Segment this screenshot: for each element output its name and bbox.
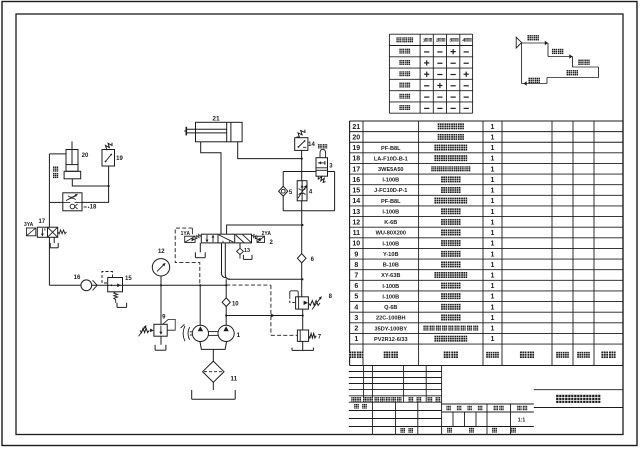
svg-text:1:1: 1:1 <box>518 418 526 424</box>
svg-text:PF-B8L: PF-B8L <box>381 199 401 205</box>
svg-text:19: 19 <box>116 156 123 162</box>
svg-text:1: 1 <box>491 188 495 195</box>
svg-text:13: 13 <box>352 209 360 216</box>
svg-text:11: 11 <box>230 375 237 382</box>
svg-text:11: 11 <box>353 230 361 237</box>
svg-text:1: 1 <box>491 198 495 205</box>
svg-text:1: 1 <box>491 209 495 216</box>
svg-text:3WE5A50: 3WE5A50 <box>378 167 404 173</box>
svg-text:14: 14 <box>308 142 315 148</box>
svg-text:15: 15 <box>352 188 360 195</box>
svg-text:1: 1 <box>491 166 495 173</box>
svg-text:1: 1 <box>491 336 495 343</box>
svg-text:1: 1 <box>491 315 495 322</box>
svg-text:WU-80X200: WU-80X200 <box>376 231 406 237</box>
svg-text:15: 15 <box>125 276 132 282</box>
svg-text:8: 8 <box>354 262 358 269</box>
svg-text:16: 16 <box>352 177 360 184</box>
svg-text:LA-F10D-B-1: LA-F10D-B-1 <box>374 156 408 162</box>
svg-text:19: 19 <box>352 145 360 152</box>
svg-text:1: 1 <box>491 283 495 290</box>
svg-text:I-100B: I-100B <box>382 294 399 300</box>
svg-text:1: 1 <box>491 326 495 333</box>
svg-text:17: 17 <box>38 219 45 225</box>
svg-text:14: 14 <box>352 198 360 205</box>
svg-text:18: 18 <box>352 156 360 163</box>
svg-text:1YA: 1YA <box>181 231 191 237</box>
svg-text:1: 1 <box>491 145 495 152</box>
svg-text:1: 1 <box>491 304 495 311</box>
svg-text:13: 13 <box>244 248 250 254</box>
svg-text:16: 16 <box>74 275 81 281</box>
svg-text:1: 1 <box>491 230 495 237</box>
svg-text:1: 1 <box>236 332 240 339</box>
svg-text:21: 21 <box>212 115 220 122</box>
svg-text:4: 4 <box>354 304 358 311</box>
svg-text:1: 1 <box>491 177 495 184</box>
svg-text:10: 10 <box>232 301 239 307</box>
svg-text:1: 1 <box>491 241 495 248</box>
svg-text:21: 21 <box>352 124 360 131</box>
svg-text:PV2R12-6/33: PV2R12-6/33 <box>374 337 408 343</box>
svg-text:I-100B: I-100B <box>382 209 399 215</box>
svg-text:7: 7 <box>354 272 358 279</box>
svg-text:12: 12 <box>158 249 165 255</box>
svg-text:3: 3 <box>354 315 358 322</box>
svg-text:22C-100BH: 22C-100BH <box>376 316 406 322</box>
svg-text:1: 1 <box>491 262 495 269</box>
svg-text:2YA: 2YA <box>262 231 272 237</box>
svg-text:5: 5 <box>354 294 358 301</box>
svg-text:3YA: 3YA <box>24 222 34 228</box>
svg-text:1: 1 <box>491 294 495 301</box>
svg-text:20: 20 <box>352 134 360 141</box>
svg-text:1: 1 <box>491 219 495 226</box>
svg-text:17: 17 <box>352 166 360 173</box>
svg-text:B-10B: B-10B <box>383 263 399 269</box>
svg-text:35DY-100BY: 35DY-100BY <box>374 326 407 332</box>
svg-text:I-100B: I-100B <box>382 178 399 184</box>
svg-text:1: 1 <box>491 251 495 258</box>
svg-text:12: 12 <box>352 219 360 226</box>
svg-text:I-100B: I-100B <box>382 241 399 247</box>
svg-text:Y-10B: Y-10B <box>383 252 399 258</box>
svg-text:Q-6B: Q-6B <box>384 305 397 311</box>
svg-text:PF-B8L: PF-B8L <box>381 146 401 152</box>
svg-text:1: 1 <box>491 156 495 163</box>
svg-text:2: 2 <box>354 326 358 333</box>
svg-text:1: 1 <box>491 272 495 279</box>
svg-text:20: 20 <box>82 153 89 159</box>
svg-text:9: 9 <box>354 251 358 258</box>
svg-text:1: 1 <box>491 134 495 141</box>
svg-text:1: 1 <box>491 124 495 131</box>
svg-text:1: 1 <box>354 336 358 343</box>
svg-text:18: 18 <box>90 204 97 210</box>
svg-text:I-100B: I-100B <box>382 284 399 290</box>
svg-text:6: 6 <box>354 283 358 290</box>
svg-text:XY-63B: XY-63B <box>381 273 400 279</box>
svg-text:K-6B: K-6B <box>384 220 397 226</box>
svg-text:J-FC10D-P-1: J-FC10D-P-1 <box>374 188 407 194</box>
svg-text:10: 10 <box>352 241 360 248</box>
